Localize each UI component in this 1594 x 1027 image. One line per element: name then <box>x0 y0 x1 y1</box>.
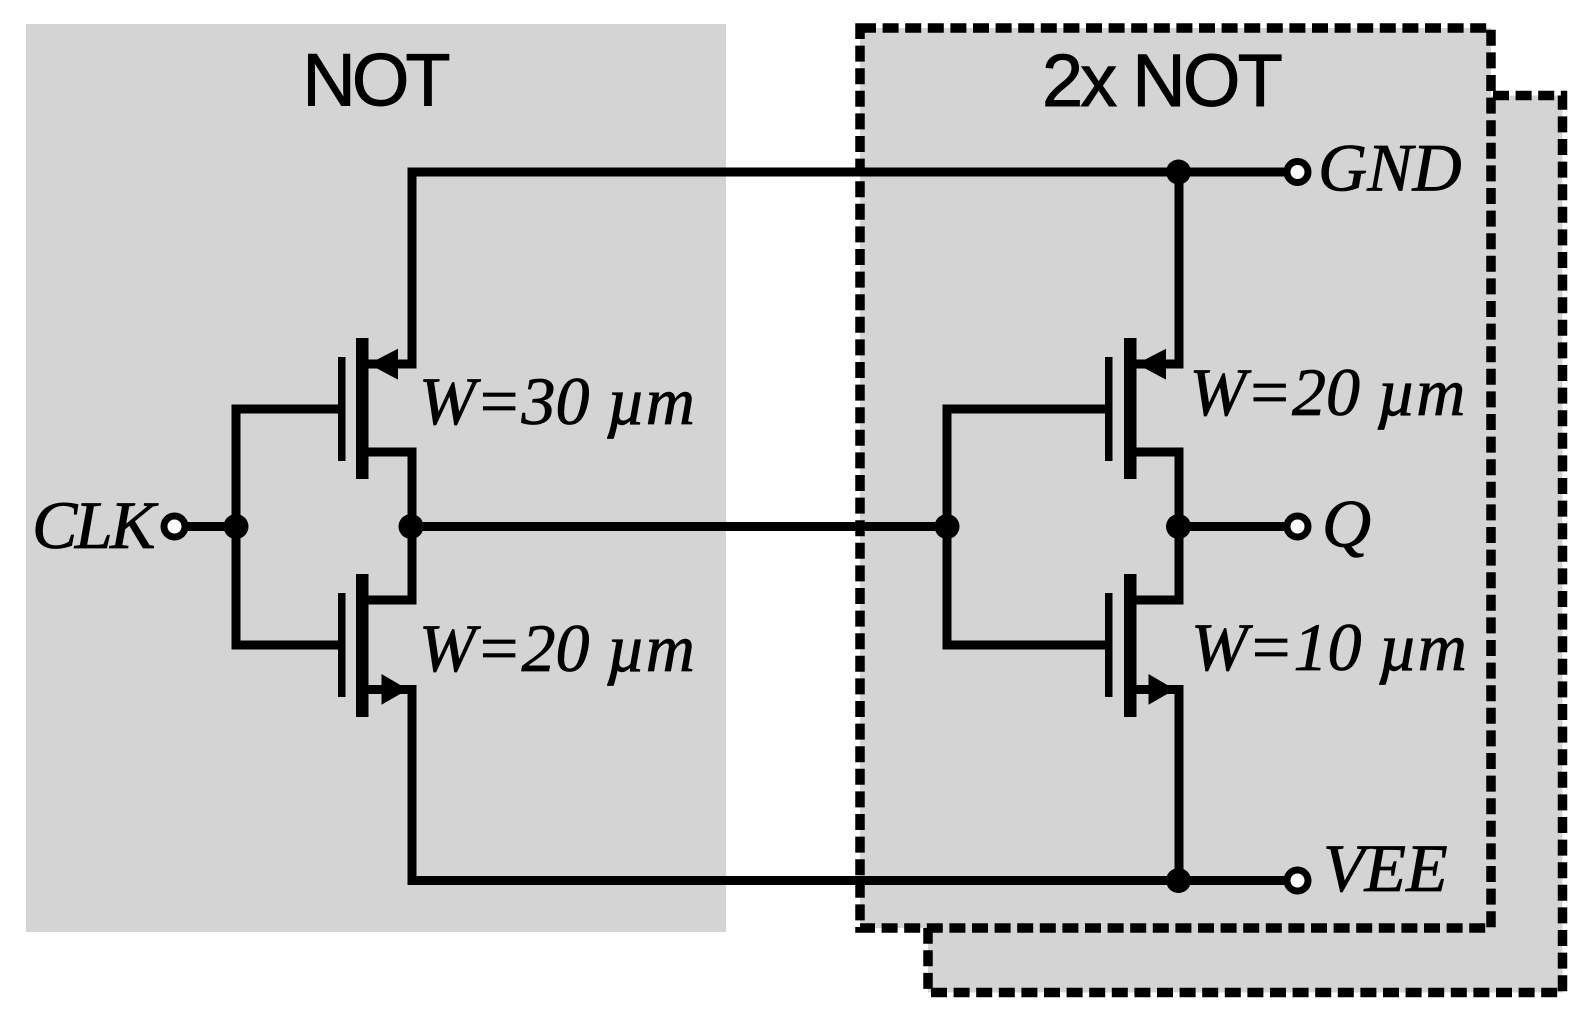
transistor M4: right NMOS W=10um <box>1105 527 1179 881</box>
terminal: CLK pin <box>164 516 185 537</box>
svg-text:W=20 µm: W=20 µm <box>1190 354 1466 430</box>
node: VEE rail junction <box>1166 868 1191 893</box>
svg-text:Q: Q <box>1322 486 1371 562</box>
M4 source arrow (points out of channel) <box>1149 674 1176 705</box>
svg-text:W=10 µm: W=10 µm <box>1191 609 1467 685</box>
M2 channel bar <box>356 574 369 717</box>
wire: left PMOS gate wire <box>232 405 346 414</box>
wire: left NMOS gate wire <box>232 641 346 650</box>
wire: VEE bottom rail <box>408 876 1285 885</box>
transistor M1: left PMOS W=30um <box>338 172 412 527</box>
M4 channel bar <box>1124 574 1137 717</box>
block background: NOT cell <box>26 24 726 932</box>
M1 source arrow (points into channel) <box>369 349 399 380</box>
M3 channel bar <box>1124 338 1137 479</box>
node: Q output junction <box>1166 514 1191 539</box>
node: CLK gate-bus junction <box>224 514 249 539</box>
M3 drain wire to Q node <box>1137 452 1180 527</box>
wire: CLK terminal to gate bus <box>186 522 236 531</box>
transistor M2: left NMOS W=20um <box>338 527 412 881</box>
svg-text:W=20 µm: W=20 µm <box>419 610 695 686</box>
svg-text:VEE: VEE <box>1323 830 1448 906</box>
block: second (back) dashed box of 2x NOT <box>928 96 1563 993</box>
svg-text:CLK: CLK <box>32 487 159 563</box>
wire: GND top rail <box>408 168 1285 177</box>
terminal: VEE pin <box>1287 870 1308 891</box>
wire: left gate bus vertical <box>232 409 241 645</box>
M4 gate bar <box>1105 593 1113 697</box>
wire: right gate bus vertical <box>943 409 952 645</box>
svg-text:NOT: NOT <box>302 39 449 122</box>
wire: right PMOS gate wire <box>943 405 1113 414</box>
M3 source wire to GND rail <box>1137 172 1180 364</box>
M1 drain wire to output node <box>369 452 413 527</box>
wire: right NMOS gate wire <box>943 641 1113 650</box>
transistor M3: right PMOS W=20um <box>1105 172 1179 527</box>
M1 gate bar <box>338 357 346 461</box>
M4 drain wire from Q node <box>1137 527 1180 601</box>
M1 source wire to GND rail <box>369 172 413 364</box>
svg-text:GND: GND <box>1318 130 1462 206</box>
node: GND rail junction <box>1166 160 1191 185</box>
M3 source arrow (points into channel) <box>1137 349 1167 380</box>
svg-text:2x NOT: 2x NOT <box>1042 39 1282 122</box>
node: NOT output junction <box>399 514 424 539</box>
M4 source wire to VEE rail <box>1137 690 1180 881</box>
terminal: GND pin <box>1287 162 1308 183</box>
terminal: Q pin <box>1287 516 1308 537</box>
M2 gate bar <box>338 593 346 697</box>
M1 channel bar <box>356 338 369 479</box>
M2 drain wire from output node <box>369 527 413 601</box>
M3 gate bar <box>1105 357 1113 461</box>
M2 source arrow (points out of channel) <box>382 674 409 705</box>
wire: output of NOT to input of 2x NOT <box>411 522 947 531</box>
svg-text:W=30 µm: W=30 µm <box>419 363 695 439</box>
M2 source wire to VEE rail <box>369 690 413 881</box>
wire: Q output wire <box>1179 522 1285 531</box>
block: first (front) dashed box of 2x NOT <box>860 28 1491 928</box>
node: 2x NOT input junction <box>935 514 960 539</box>
